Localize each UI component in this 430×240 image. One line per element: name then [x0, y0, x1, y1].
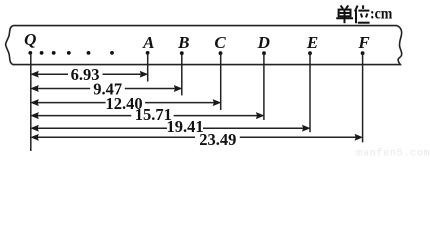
- svg-text:F: F: [357, 33, 370, 52]
- svg-text:B: B: [177, 33, 189, 52]
- svg-text:E: E: [306, 33, 318, 52]
- svg-text:C: C: [214, 33, 226, 52]
- svg-text::cm: :cm: [370, 6, 393, 23]
- svg-text:D: D: [257, 33, 270, 52]
- svg-text:23.49: 23.49: [199, 130, 236, 149]
- svg-text:manfen5.com: manfen5.com: [356, 148, 430, 158]
- svg-text:19.41: 19.41: [166, 117, 203, 136]
- svg-text:A: A: [142, 33, 154, 52]
- svg-text:Q: Q: [24, 30, 36, 49]
